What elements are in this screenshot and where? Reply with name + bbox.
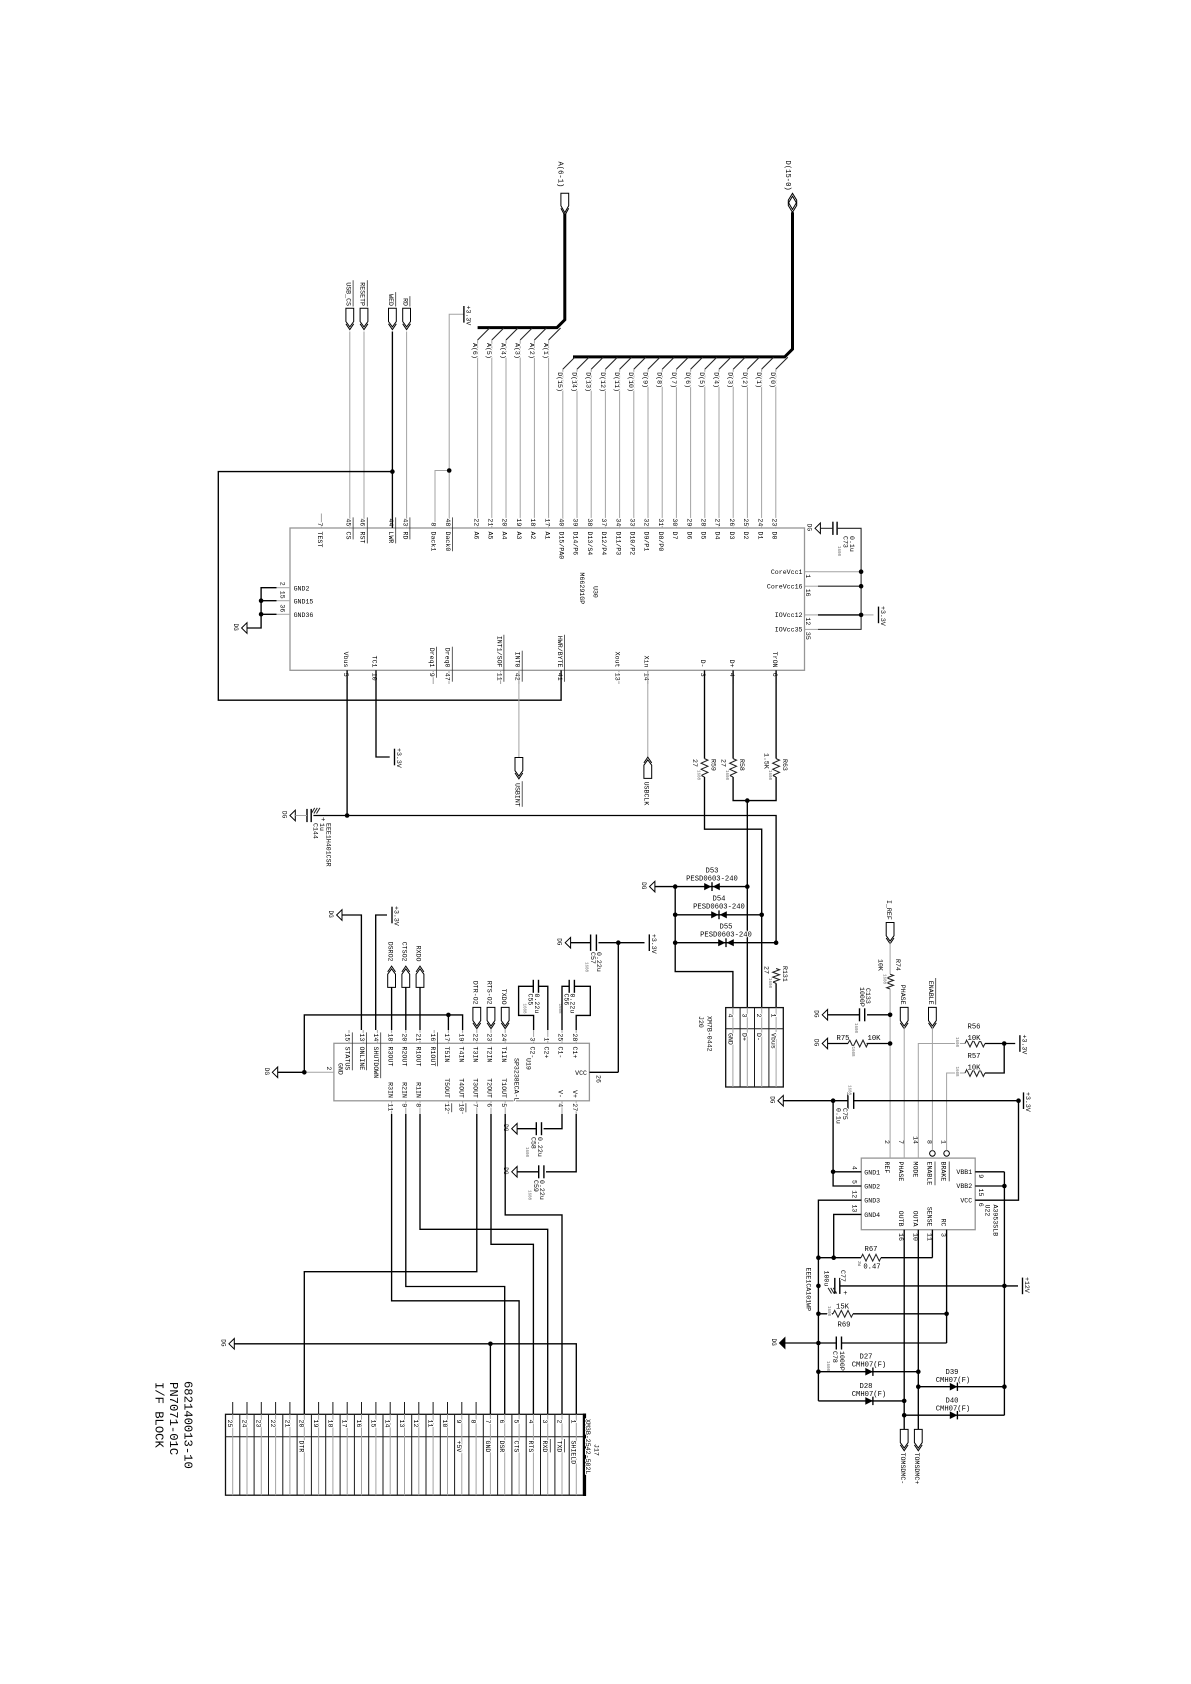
- svg-text:+: +: [843, 1290, 847, 1298]
- svg-text:USBCLK: USBCLK: [643, 782, 650, 806]
- wire RTS-O2: [490, 1029, 492, 1030]
- svg-text:CMH07(F): CMH07(F): [936, 1377, 971, 1385]
- bus tap D(14): [577, 357, 589, 369]
- J17 pin 7 GND: [489, 1414, 491, 1495]
- U19 pin 23 T2IN: [490, 1030, 492, 1043]
- svg-text:Dack0: Dack0: [444, 532, 451, 552]
- svg-text:10K: 10K: [968, 1035, 982, 1043]
- bus tap D(5): [705, 357, 717, 369]
- svg-text:8: 8: [470, 1420, 477, 1424]
- junction CoreVcc1: [859, 569, 864, 574]
- U19 pin 24 T1IN: [504, 1030, 506, 1043]
- svg-text:D(8): D(8): [656, 372, 663, 388]
- svg-text:PESD0603-240: PESD0603-240: [700, 931, 752, 939]
- svg-text:D+: D+: [741, 1033, 748, 1041]
- J17 pin 18: [332, 1402, 334, 1414]
- junction C78 rail: [816, 1341, 821, 1346]
- svg-text:36: 36: [279, 604, 286, 612]
- wire C73 to Vcc rail: [820, 527, 833, 529]
- diode D40 CMH07(F): [904, 1414, 1004, 1416]
- svg-text:D(2): D(2): [741, 372, 748, 388]
- wire C78 ground: [785, 1342, 836, 1344]
- junction GND36: [259, 612, 264, 617]
- svg-text:A3: A3: [515, 532, 522, 540]
- wire REF net: [889, 989, 891, 1158]
- wire I_REF to R74: [889, 941, 891, 974]
- svg-text:T4IN: T4IN: [457, 1047, 464, 1063]
- U30 pin 17 A1: [548, 514, 550, 529]
- wire VCC to +3.3V: [975, 1101, 1018, 1201]
- junction D27 rail: [816, 1369, 821, 1374]
- junction +12V/VBB: [1002, 1284, 1007, 1289]
- diode D28 CMH07(F): [818, 1400, 904, 1402]
- svg-text:10K: 10K: [868, 1035, 882, 1043]
- U30 pin 27 D4: [718, 514, 720, 529]
- svg-text:3: 3: [940, 1233, 947, 1237]
- svg-text:1608: 1608: [767, 770, 771, 781]
- U30 pin 4 D+: [732, 670, 734, 684]
- wire PHASE net: [903, 1026, 905, 1158]
- U19 pin 28 C1+: [575, 1030, 577, 1043]
- svg-text:D(13): D(13): [585, 372, 592, 392]
- svg-text:CMH07(F): CMH07(F): [852, 1362, 887, 1370]
- svg-text:1608: 1608: [825, 1361, 829, 1372]
- net label RESETP: [360, 308, 368, 327]
- svg-text:IOVcc12: IOVcc12: [775, 612, 803, 619]
- svg-text:C57: C57: [589, 952, 596, 964]
- svg-text:A6: A6: [472, 532, 479, 540]
- svg-text:10: 10: [441, 1420, 448, 1428]
- svg-text:+3.3V: +3.3V: [1024, 1092, 1031, 1112]
- wire C144 to ground: [295, 815, 307, 817]
- wire VCC to +3.3V rail: [617, 943, 619, 1073]
- svg-text:12: 12: [443, 1103, 450, 1111]
- U30 pin 36 GND36: [277, 613, 291, 615]
- resistor R75 10K: [867, 1043, 891, 1045]
- svg-text:25: 25: [557, 1033, 564, 1041]
- U30 pin 8 Dack1: [434, 514, 436, 529]
- svg-text:ONLINE: ONLINE: [358, 1047, 365, 1071]
- svg-text:C56: C56: [562, 994, 569, 1006]
- svg-text:27: 27: [691, 759, 698, 767]
- junction REF/C133: [888, 1013, 893, 1018]
- junction GND4/R67: [831, 1255, 836, 1260]
- svg-text:7: 7: [472, 1103, 479, 1107]
- ground DG (C59): [512, 1167, 517, 1178]
- svg-text:TEST: TEST: [316, 532, 323, 548]
- wire TC1 to +3.3V: [376, 670, 390, 757]
- svg-text:INT0: INT0: [514, 652, 521, 668]
- J17 pin 22: [275, 1402, 277, 1414]
- junction +3.3V/VCC: [1016, 1098, 1021, 1103]
- capacitor C58 0.22u: [535, 1122, 537, 1135]
- svg-text:PHASE: PHASE: [897, 1162, 904, 1182]
- svg-text:+12V: +12V: [1023, 1277, 1030, 1293]
- svg-text:39: 39: [572, 518, 579, 526]
- svg-text:RD: RD: [401, 532, 408, 540]
- U19 pin 13 ONLINE: [362, 1030, 364, 1043]
- svg-text:A(1): A(1): [542, 343, 549, 359]
- svg-text:TC1: TC1: [371, 656, 378, 668]
- svg-text:A(3): A(3): [514, 343, 521, 359]
- power +3.3V (SHUTDOWN): [391, 907, 393, 924]
- wire Xin net: [647, 670, 649, 757]
- svg-text:CTS: CTS: [513, 1441, 520, 1453]
- junction GND3/R67: [816, 1255, 821, 1260]
- U30 pin 9 Dreq1: [432, 670, 434, 684]
- svg-text:CMH07(F): CMH07(F): [936, 1406, 971, 1414]
- svg-text:CoreVcc16: CoreVcc16: [767, 583, 803, 590]
- svg-text:USBINT: USBINT: [514, 783, 521, 807]
- U30 pin 34 D11/P3: [619, 514, 621, 529]
- svg-text:DG: DG: [768, 1096, 775, 1104]
- svg-text:R3OUT: R3OUT: [386, 1047, 393, 1067]
- bus D(15-0): [573, 212, 793, 357]
- wire +3.3V rail: [599, 942, 645, 944]
- svg-text:INT1/SOF: INT1/SOF: [495, 636, 502, 668]
- U30 pin 23 D0: [775, 514, 777, 529]
- wire V- to C58: [544, 1114, 562, 1129]
- svg-text:21: 21: [415, 1033, 422, 1041]
- net label CTSO2: [402, 969, 410, 988]
- svg-text:1608: 1608: [696, 770, 700, 781]
- svg-text:A(4): A(4): [499, 343, 506, 359]
- svg-text:DSRO2: DSRO2: [386, 942, 393, 962]
- junction GND1/GND2 tie: [831, 1098, 836, 1103]
- J17 pin 6 DSR: [504, 1414, 506, 1495]
- svg-text:D(6): D(6): [684, 372, 691, 388]
- svg-text:T5OUT: T5OUT: [443, 1078, 450, 1098]
- svg-text:1u: 1u: [318, 823, 325, 831]
- junction GND15: [259, 598, 264, 603]
- svg-text:11: 11: [386, 1103, 393, 1111]
- svg-text:2: 2: [755, 1014, 762, 1018]
- svg-text:11: 11: [925, 1233, 932, 1241]
- U30 pin 48 Dack0: [448, 514, 450, 529]
- ground DG (C78) filled: [780, 1338, 785, 1349]
- svg-text:27: 27: [571, 1103, 578, 1111]
- U30 pin 28 D5: [704, 514, 706, 529]
- svg-text:R131: R131: [781, 966, 788, 982]
- junction J17 GND pin7: [488, 1342, 493, 1347]
- power +3.3V (U19 VCC): [648, 934, 650, 951]
- svg-text:1000P: 1000P: [858, 987, 865, 1007]
- U19 pin 11 R3IN: [391, 1101, 393, 1114]
- svg-text:12: 12: [412, 1420, 419, 1428]
- bus tap A(3): [520, 328, 532, 340]
- svg-text:RTS: RTS: [527, 1441, 534, 1453]
- wire DTR-O2: [476, 1029, 478, 1030]
- svg-text:7: 7: [484, 1420, 491, 1424]
- svg-text:27: 27: [763, 966, 770, 974]
- svg-text:3: 3: [741, 1014, 748, 1018]
- svg-text:+3.3V: +3.3V: [650, 934, 657, 954]
- U30 pin 20 A4: [505, 514, 507, 529]
- svg-text:GND: GND: [726, 1033, 733, 1045]
- wire CS net: [349, 332, 351, 514]
- resistor R131 27: [773, 969, 780, 984]
- svg-text:R56: R56: [968, 1024, 981, 1032]
- svg-text:6: 6: [498, 1420, 505, 1424]
- svg-text:RD: RD: [401, 298, 408, 306]
- svg-text:25: 25: [742, 518, 749, 526]
- svg-text:GND: GND: [337, 1063, 344, 1075]
- svg-text:22: 22: [269, 1420, 276, 1428]
- wire C56 to C1+: [574, 986, 590, 1030]
- svg-text:28: 28: [700, 518, 707, 526]
- svg-text:GND: GND: [484, 1441, 491, 1453]
- svg-text:1: 1: [804, 574, 811, 578]
- svg-text:PESD0603-240: PESD0603-240: [693, 904, 745, 912]
- capacitor C73 0.1u: [832, 522, 834, 535]
- junction D54 left: [673, 913, 678, 918]
- svg-text:12: 12: [850, 1190, 857, 1198]
- resistor R56 10K: [965, 1040, 985, 1047]
- U30 pin 44 LWR: [391, 514, 393, 529]
- wire GND3: [818, 1200, 861, 1401]
- svg-text:+5V: +5V: [455, 1441, 462, 1453]
- svg-text:R2OUT: R2OUT: [401, 1047, 408, 1067]
- svg-text:SHUTDOWN: SHUTDOWN: [372, 1047, 379, 1079]
- svg-text:TrON: TrON: [771, 652, 778, 668]
- bus tap D(6): [691, 357, 703, 369]
- svg-text:D0: D0: [771, 532, 778, 540]
- svg-text:OUTB: OUTB: [897, 1211, 904, 1227]
- svg-text:11: 11: [427, 1420, 434, 1428]
- svg-text:C58: C58: [530, 1137, 537, 1149]
- svg-text:1608: 1608: [847, 1085, 851, 1096]
- svg-text:DG: DG: [219, 1339, 226, 1347]
- svg-text:A4: A4: [501, 532, 508, 540]
- svg-text:GND4: GND4: [864, 1212, 880, 1219]
- bus tap D(12): [605, 357, 617, 369]
- net label WED: [389, 308, 397, 327]
- svg-text:35: 35: [804, 632, 811, 640]
- svg-text:14: 14: [372, 1033, 379, 1041]
- svg-text:T2IN: T2IN: [486, 1047, 493, 1063]
- svg-text:1: 1: [543, 1037, 550, 1041]
- svg-text:17: 17: [443, 1033, 450, 1041]
- wire TrON to R63: [775, 670, 777, 758]
- svg-text:0.1u: 0.1u: [848, 536, 855, 552]
- svg-text:40: 40: [558, 518, 565, 526]
- svg-text:0.22u: 0.22u: [536, 1137, 543, 1157]
- bus tap D(8): [662, 357, 674, 369]
- U19 pin 6 T2OUT: [490, 1101, 492, 1114]
- diode D53 PESD0603-240: [675, 886, 747, 888]
- U19 pin 18 R3OUT: [391, 1030, 393, 1043]
- wire D- to USB: [705, 777, 762, 1008]
- svg-text:42: 42: [514, 673, 521, 681]
- svg-text:TXDO: TXDO: [500, 989, 507, 1005]
- svg-text:VCC: VCC: [960, 1197, 972, 1204]
- svg-text:20: 20: [501, 518, 508, 526]
- svg-text:V+: V+: [571, 1090, 578, 1098]
- IC U22 A3953SLB body: [861, 1158, 975, 1230]
- wire R75 to ground: [828, 1043, 848, 1045]
- svg-text:46: 46: [359, 518, 366, 526]
- svg-text:R59: R59: [710, 759, 717, 771]
- svg-text:15: 15: [344, 1033, 351, 1041]
- svg-text:13: 13: [614, 673, 621, 681]
- U30 pin 19 A3: [519, 514, 521, 529]
- junction D+ drop: [745, 798, 750, 803]
- svg-text:A(2): A(2): [528, 343, 535, 359]
- wire Dack1 pull-up: [435, 471, 449, 514]
- wire R1IN to RXD: [420, 1114, 548, 1414]
- U19 pin 10 T4OUT: [462, 1101, 464, 1114]
- svg-text:D(15-0): D(15-0): [783, 161, 791, 191]
- wire RC net: [946, 1230, 948, 1343]
- svg-text:1608: 1608: [954, 1037, 958, 1048]
- ground DG (ONLINE): [337, 910, 342, 921]
- wire C56 to C1-: [562, 986, 569, 1030]
- J17 pin 16: [361, 1402, 363, 1414]
- svg-text:R1OUT: R1OUT: [415, 1047, 422, 1067]
- svg-text:MODE: MODE: [911, 1162, 918, 1178]
- svg-text:45: 45: [345, 518, 352, 526]
- wire ground rail to C75: [783, 1100, 848, 1102]
- svg-text:1: 1: [940, 1140, 947, 1144]
- U30 pin 38 D13/S4: [590, 514, 592, 529]
- wire C55 to C2-: [519, 986, 534, 1030]
- svg-text:1608: 1608: [557, 1004, 561, 1015]
- svg-text:WED: WED: [387, 294, 394, 306]
- svg-text:D(15): D(15): [556, 372, 563, 392]
- wire C58 to ground: [517, 1128, 536, 1130]
- bus tap D(0): [776, 357, 788, 369]
- wire SENSE to R67: [931, 1230, 933, 1258]
- U19 pin 5 T1OUT: [504, 1101, 506, 1114]
- wire U19 GND to DG: [278, 1071, 304, 1073]
- wire DG rail to GND and SHIELD: [234, 1344, 576, 1415]
- svg-text:DG: DG: [232, 624, 239, 632]
- bus tap A(5): [492, 328, 504, 340]
- resistor R67 0.47: [818, 1257, 861, 1259]
- svg-text:9: 9: [455, 1420, 462, 1424]
- wire TXDO: [504, 1029, 506, 1030]
- svg-text:8: 8: [430, 522, 437, 526]
- J17 pin 12: [418, 1402, 420, 1414]
- U30 pin 42 INT0: [518, 670, 520, 684]
- bus tap D(13): [591, 357, 603, 369]
- svg-text:A5: A5: [487, 532, 494, 540]
- svg-text:18: 18: [529, 518, 536, 526]
- J20 pin 4 GND: [732, 1008, 734, 1087]
- svg-text:R74: R74: [894, 959, 901, 971]
- net label DTR-O2: [473, 1007, 481, 1026]
- svg-text:R58: R58: [738, 759, 745, 771]
- net label USB_CS: [346, 308, 354, 327]
- J17 pin 9 +5V: [461, 1402, 463, 1414]
- J17 pin 2 TXD: [561, 1414, 563, 1495]
- U30 pin 13 Xout: [618, 670, 620, 684]
- junction D27/OUTA: [916, 1369, 921, 1374]
- svg-text:I/F BLOCK: I/F BLOCK: [152, 1382, 166, 1449]
- wire C55 to C2+: [539, 986, 548, 1030]
- diode D39 CMH07(F): [918, 1386, 1004, 1388]
- svg-text:D(0): D(0): [769, 372, 776, 388]
- svg-text:13: 13: [850, 1204, 857, 1212]
- U19 pin 15 STATUS: [348, 1030, 350, 1043]
- svg-text:3: 3: [528, 1037, 535, 1041]
- svg-text:26: 26: [595, 1075, 602, 1083]
- wire C133 to ground: [828, 1014, 860, 1016]
- bus tap D(4): [719, 357, 731, 369]
- svg-text:BRAKE: BRAKE: [940, 1162, 947, 1182]
- svg-text:D(11): D(11): [613, 372, 620, 392]
- svg-text:29: 29: [685, 518, 692, 526]
- svg-text:DG: DG: [327, 911, 334, 919]
- svg-text:J20: J20: [697, 1016, 704, 1028]
- bus A(6-1): [478, 214, 565, 328]
- svg-text:PN7071-01C: PN7071-01C: [166, 1382, 180, 1455]
- capacitor C144 1u EEE1H401CSR: [306, 809, 308, 822]
- junction VBB2: [1002, 1184, 1007, 1189]
- junction R56/R57 +3.3V: [1002, 1041, 1007, 1046]
- U19 pin 8 R1IN: [419, 1101, 421, 1114]
- U19 pin 12 T5OUT: [447, 1101, 449, 1114]
- svg-text:1.5K: 1.5K: [763, 753, 770, 769]
- svg-text:16: 16: [804, 589, 811, 597]
- capacitor C75 0.1u: [847, 1093, 849, 1109]
- wire V+ to C59: [546, 1114, 576, 1172]
- wire T3OUT to DTR: [304, 1114, 477, 1414]
- svg-text:GND1: GND1: [864, 1169, 880, 1176]
- svg-text:17: 17: [543, 518, 550, 526]
- svg-text:0.22u: 0.22u: [533, 994, 540, 1014]
- U30 pin 37 D12/P4: [604, 514, 606, 529]
- svg-text:19: 19: [515, 518, 522, 526]
- resistor R58 27: [730, 759, 737, 777]
- wire WED to HWR/BYTE loop: [218, 472, 561, 701]
- junction RC/R69: [944, 1312, 949, 1317]
- U19 pin 7 T3OUT: [476, 1101, 478, 1114]
- svg-text:U30: U30: [592, 586, 599, 598]
- svg-text:C78: C78: [831, 1351, 838, 1363]
- power +12V: [1022, 1278, 1024, 1295]
- wire RD net: [406, 332, 408, 514]
- wire CTSO2: [405, 987, 407, 1030]
- svg-text:D10/P2: D10/P2: [629, 532, 636, 556]
- U30 pin 21 A5: [491, 514, 493, 529]
- svg-text:D2: D2: [742, 532, 749, 540]
- U30 pin 31 D8/P0: [661, 514, 663, 529]
- svg-text:D53: D53: [706, 867, 719, 875]
- J20 pin 2 D-: [761, 1008, 763, 1087]
- U30 pin 46 RST: [363, 514, 365, 529]
- junction D40/OUTB: [902, 1413, 907, 1418]
- bus tap D(9): [648, 357, 660, 369]
- U30 pin 41 HWR/BYTE: [560, 670, 562, 684]
- svg-text:2: 2: [883, 1140, 890, 1144]
- svg-text:D39: D39: [946, 1369, 959, 1377]
- bus tap D(1): [762, 357, 774, 369]
- net label RTS-O2: [487, 1007, 495, 1026]
- U30 pin 33 D10/P2: [633, 514, 635, 529]
- svg-text:GND3: GND3: [864, 1198, 880, 1205]
- U19 pin 17 T5IN: [447, 1030, 449, 1043]
- U30 pin 32 D9/P1: [647, 514, 649, 529]
- svg-text:GND2: GND2: [864, 1184, 880, 1191]
- U30 pin 14 Xin: [647, 670, 649, 684]
- svg-text:1608: 1608: [836, 546, 840, 557]
- bus tap A(4): [506, 328, 518, 340]
- wire C75 to +3.3V dot: [854, 1100, 1019, 1102]
- svg-text:27: 27: [714, 518, 721, 526]
- wire R57 to +3.3V: [985, 1044, 1004, 1074]
- capacitor C59 0.22u: [538, 1165, 540, 1178]
